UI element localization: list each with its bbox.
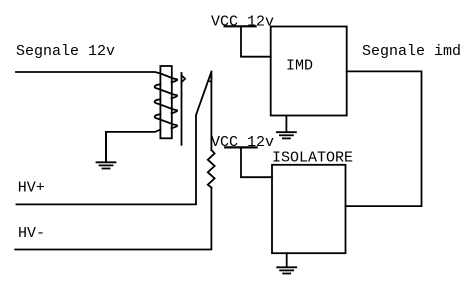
svg-text:Segnale 12v: Segnale 12v [16, 43, 115, 60]
svg-text:ISOLATORE: ISOLATORE [272, 150, 353, 167]
svg-text:Segnale imd: Segnale imd [362, 43, 461, 60]
svg-text:HV-: HV- [18, 225, 45, 242]
svg-text:VCC 12v: VCC 12v [211, 134, 274, 151]
svg-text:VCC 12v: VCC 12v [211, 14, 274, 31]
svg-text:IMD: IMD [286, 58, 313, 75]
svg-text:HV+: HV+ [18, 180, 45, 197]
